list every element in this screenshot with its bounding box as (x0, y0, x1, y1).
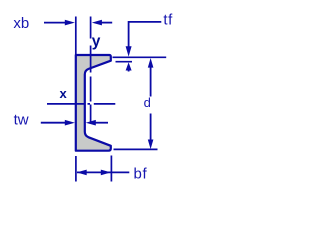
d bottom extension line (114, 148, 158, 150)
d arrow down (148, 140, 154, 150)
tf arrow down (126, 46, 132, 56)
d dimension line lower (150, 114, 152, 142)
svg-text:d: d (144, 95, 151, 110)
bf arrow left-pointing (77, 170, 87, 176)
tw dimension line right tail (94, 122, 109, 124)
x-axis centroid line (47, 103, 115, 105)
tf extension line bottom (116, 61, 133, 63)
tf arrow up with tail (128, 68, 130, 72)
tw arrow left-pointing (86, 120, 96, 126)
tf extension line top (shared with d) (113, 56, 167, 58)
bf arrow right-pointing (101, 170, 111, 176)
bf extension line right (110, 156, 112, 182)
xb arrow left (65, 20, 75, 26)
d dimension line upper (150, 65, 152, 97)
xb dimension line right tail (100, 22, 112, 24)
xb arrow right (92, 20, 102, 26)
d arrow up (148, 58, 154, 68)
channel section C-shape (76, 55, 111, 151)
tw dimension line left (41, 122, 67, 124)
tw arrow right-pointing (65, 120, 75, 126)
tf leader elbow (129, 22, 162, 47)
extension line web left face upward (75, 17, 77, 55)
centerline y-axis (90, 17, 92, 127)
bf dimension line (77, 171, 129, 173)
svg-text:bf: bf (134, 166, 148, 183)
bf extension line left (75, 156, 77, 182)
xb dimension line left (44, 22, 66, 24)
svg-text:xb: xb (13, 15, 29, 32)
svg-text:x: x (60, 86, 68, 101)
svg-text:tf: tf (163, 11, 173, 28)
svg-text:y: y (92, 33, 101, 50)
svg-text:tw: tw (14, 112, 29, 129)
